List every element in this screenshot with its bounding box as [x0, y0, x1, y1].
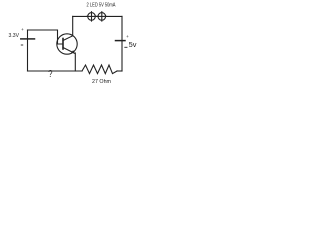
- wire between lamps: [95, 15, 98, 17]
- transistor Q1 emitter: [63, 48, 75, 54]
- svg-text:27 Ohm: 27 Ohm: [92, 79, 111, 85]
- lamp LED1: [87, 12, 96, 21]
- transistor Q1 emitter arrowhead: [71, 50, 75, 53]
- battery B2 5V bar: [116, 40, 126, 42]
- battery B1 minus: [21, 44, 23, 46]
- wire bottom: [28, 70, 83, 72]
- battery B1 3.3V bar: [21, 38, 35, 40]
- wire left vertical: [27, 30, 29, 71]
- wire right vertical: [121, 16, 123, 71]
- transistor Q1 body: [57, 34, 77, 54]
- wire emitter down: [74, 53, 76, 71]
- resistor R1 zigzag: [82, 65, 117, 74]
- wire top-left from battery to base: [28, 30, 63, 44]
- wire collector up: [72, 16, 74, 35]
- wire top to lamps: [73, 15, 88, 17]
- wire top-right: [106, 15, 122, 17]
- svg-text:5v: 5v: [129, 40, 137, 49]
- svg-text:+: +: [126, 34, 129, 39]
- svg-text:+: +: [21, 27, 24, 32]
- battery B2 minus dash: [125, 46, 127, 48]
- lamp LED2: [97, 12, 106, 21]
- svg-text:2 LED 5V 50mA: 2 LED 5V 50mA: [87, 2, 116, 8]
- transistor Q1 base bar: [62, 39, 64, 50]
- transistor Q1 collector: [63, 36, 73, 41]
- wire bottom-right: [117, 70, 122, 72]
- svg-text:?: ?: [48, 69, 53, 80]
- svg-text:3.3V: 3.3V: [9, 33, 20, 39]
